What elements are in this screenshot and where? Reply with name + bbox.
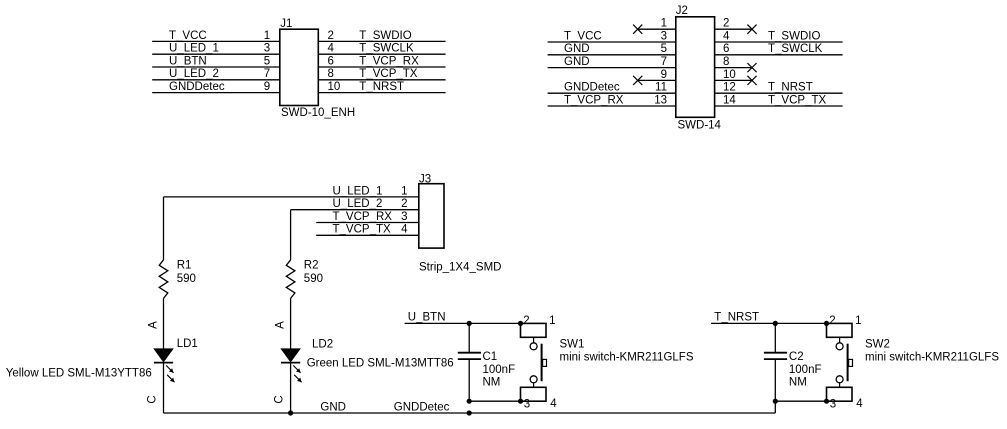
no-connect X at J2 pin 10 [747, 76, 756, 85]
junction SW1 pin 3 [518, 399, 523, 404]
connector J2 SWD-14 [676, 5, 722, 132]
svg-text:C: C [274, 395, 286, 403]
LED light arrows [166, 365, 173, 372]
svg-text:2: 2 [523, 315, 529, 327]
wire net GNDDetec to J2 pin 11 [548, 92, 676, 94]
svg-text:U_BTN: U_BTN [169, 55, 207, 67]
wire C1 bottom to SW1 pin 3 [469, 400, 520, 402]
svg-text:6: 6 [723, 43, 729, 55]
svg-text:10: 10 [723, 69, 736, 81]
svg-text:3: 3 [524, 399, 530, 411]
wire LD1 cathode to GND bus [163, 363, 165, 414]
svg-text:NM: NM [483, 376, 501, 388]
svg-text:T_SWCLK: T_SWCLK [359, 43, 414, 55]
svg-text:T_VCC: T_VCC [564, 30, 602, 42]
wire C2 bottom to SW2 pin 3 [775, 400, 826, 402]
capacitor C1 100nF NM [468, 323, 470, 352]
svg-text:9: 9 [264, 81, 270, 93]
svg-text:R2: R2 [304, 259, 319, 271]
svg-text:C: C [147, 395, 159, 403]
svg-text:T_VCP_RX: T_VCP_RX [564, 94, 624, 106]
svg-text:LD2: LD2 [312, 339, 333, 351]
resistor R2 590 [286, 260, 295, 299]
junction LD2 cathode on bus [288, 410, 293, 415]
svg-text:10: 10 [328, 81, 341, 93]
svg-text:13: 13 [654, 94, 667, 106]
wire net U_LED_1 to J3 pin 1 [164, 196, 419, 198]
junction SW2 pin 3 [824, 399, 829, 404]
wire U_LED_2 vertical to R2 [290, 210, 292, 260]
resistor R1 590 [159, 260, 168, 299]
svg-text:GND: GND [564, 56, 590, 68]
no-connect X at J2 pin 2 [747, 25, 756, 34]
svg-text:T_NRST: T_NRST [768, 82, 813, 94]
junction C1 bottom [467, 399, 472, 404]
junction C2 bottom [773, 399, 778, 404]
svg-text:8: 8 [723, 56, 729, 68]
svg-text:J2: J2 [676, 5, 688, 17]
wire net U_LED_2 to J1 pin 7 [152, 79, 280, 81]
svg-text:T_NRST: T_NRST [714, 312, 759, 324]
svg-text:T_NRST: T_NRST [359, 81, 404, 93]
svg-text:Yellow LED SML-M13YTT86: Yellow LED SML-M13YTT86 [6, 367, 152, 379]
svg-text:GNDDetec: GNDDetec [169, 81, 225, 93]
svg-text:6: 6 [328, 55, 334, 67]
svg-text:Strip_1X4_SMD: Strip_1X4_SMD [419, 262, 501, 274]
svg-text:GND: GND [320, 401, 346, 413]
wire R2 to LD2 [290, 298, 292, 349]
wire U_LED_1 vertical to R1 [163, 197, 165, 260]
svg-text:3: 3 [264, 43, 270, 55]
wire net U_BTN to J1 pin 5 [152, 66, 280, 68]
wire net GND to J2 pin 7 [548, 67, 676, 69]
wire net T_VCP_RX to J2 pin 13 [548, 105, 676, 107]
svg-text:100nF: 100nF [483, 364, 516, 376]
svg-text:2: 2 [401, 198, 407, 210]
switch SW2 mini switch-KMR211GLFS [827, 323, 853, 337]
svg-text:Green LED SML-M13MTT86: Green LED SML-M13MTT86 [307, 358, 454, 370]
svg-text:590: 590 [177, 273, 196, 285]
svg-text:SWD-10_ENH: SWD-10_ENH [281, 107, 355, 119]
connector J1 SWD-10_ENH [280, 18, 355, 119]
svg-text:U_LED_1: U_LED_1 [169, 43, 219, 55]
svg-text:1: 1 [661, 18, 667, 30]
J2 pin 9 no-connect wire [638, 79, 676, 81]
wire net GND to J2 pin 5 [548, 54, 676, 56]
svg-text:U_BTN: U_BTN [408, 312, 446, 324]
J2 pin 2 no-connect wire [715, 28, 752, 30]
svg-text:GND: GND [564, 43, 590, 55]
svg-text:A: A [275, 321, 287, 329]
svg-text:A: A [148, 321, 160, 329]
wire net U_LED_2 to J3 pin 2 [291, 209, 419, 211]
wire net T_VCP_TX from J1 pin 8 [318, 79, 445, 81]
no-connect X at J2 pin 1 [633, 25, 642, 34]
svg-text:NM: NM [789, 376, 807, 388]
svg-text:5: 5 [661, 43, 667, 55]
svg-text:T_VCP_TX: T_VCP_TX [359, 68, 417, 80]
svg-text:8: 8 [328, 68, 334, 80]
svg-text:2: 2 [723, 18, 729, 30]
capacitor C2 100nF NM [774, 323, 776, 352]
svg-text:T_SWCLK: T_SWCLK [768, 43, 823, 55]
J2 pin 10 no-connect wire [715, 79, 752, 81]
no-connect X at J2 pin 9 [633, 76, 642, 85]
svg-text:SWD-14: SWD-14 [678, 120, 722, 132]
wire top net to SW2 pin 2 [711, 322, 826, 324]
svg-text:4: 4 [550, 398, 557, 410]
wire R1 to LD1 [163, 298, 165, 349]
svg-text:T_VCP_RX: T_VCP_RX [333, 211, 393, 223]
svg-text:3: 3 [401, 211, 407, 223]
svg-text:T_VCP_TX: T_VCP_TX [333, 224, 391, 236]
svg-text:5: 5 [264, 55, 270, 67]
svg-text:9: 9 [661, 69, 667, 81]
wire GND bus [164, 412, 776, 414]
wire LD2 cathode to GND bus [290, 363, 292, 414]
junction C2 top [773, 321, 778, 326]
svg-text:14: 14 [723, 94, 736, 106]
svg-text:T_VCP_TX: T_VCP_TX [768, 94, 826, 106]
switch SW1 mini switch-KMR211GLFS [521, 323, 547, 337]
svg-text:U_LED_2: U_LED_2 [169, 68, 219, 80]
connector J3 Strip_1X4_SMD [419, 173, 502, 273]
wire net T_VCC to J1 pin 1 [152, 40, 280, 42]
svg-text:4: 4 [328, 43, 335, 55]
J2 pin 8 no-connect wire [715, 67, 752, 69]
svg-text:mini switch-KMR211GLFS: mini switch-KMR211GLFS [560, 352, 694, 364]
svg-text:1: 1 [549, 315, 555, 327]
svg-text:SW2: SW2 [865, 339, 890, 351]
wire top net to SW1 pin 2 [405, 322, 521, 324]
LED LD2 [281, 349, 300, 362]
svg-text:11: 11 [655, 82, 667, 94]
LED LD1 [154, 349, 173, 362]
svg-text:C2: C2 [789, 351, 804, 363]
svg-text:4: 4 [723, 30, 730, 42]
svg-text:GNDDetec: GNDDetec [564, 82, 620, 94]
svg-text:mini switch-KMR211GLFS: mini switch-KMR211GLFS [865, 352, 999, 364]
svg-text:1: 1 [401, 185, 407, 197]
svg-text:3: 3 [661, 30, 667, 42]
svg-text:1: 1 [855, 315, 861, 327]
wire net GNDDetec to J1 pin 9 [152, 92, 280, 94]
svg-text:T_VCP_RX: T_VCP_RX [359, 55, 419, 67]
J2 pin 1 no-connect wire [638, 28, 676, 30]
junction SW1 pin 2 [518, 321, 523, 326]
svg-text:100nF: 100nF [789, 364, 822, 376]
wire net T_NRST from J1 pin 10 [318, 92, 445, 94]
junction SW2 pin 2 [824, 321, 829, 326]
junction C1 at GND bus [467, 410, 472, 415]
svg-text:SW1: SW1 [560, 339, 585, 351]
svg-text:3: 3 [830, 399, 836, 411]
svg-text:U_LED_2: U_LED_2 [333, 198, 383, 210]
svg-text:2: 2 [328, 30, 334, 42]
wire net T_SWDIO from J1 pin 2 [318, 40, 445, 42]
wire net T_SWDIO from J2 pin 4 [715, 41, 843, 43]
wire net U_LED_1 to J1 pin 3 [152, 53, 280, 55]
svg-text:7: 7 [661, 56, 667, 68]
wire net T_VCP_RX to J3 pin 3 [316, 222, 419, 224]
svg-text:R1: R1 [177, 259, 192, 271]
svg-text:J3: J3 [419, 173, 431, 185]
wire net T_VCP_TX from J2 pin 14 [715, 105, 843, 107]
junction C1 top [467, 321, 472, 326]
svg-text:1: 1 [264, 30, 270, 42]
svg-text:LD1: LD1 [177, 338, 198, 350]
svg-text:J1: J1 [280, 18, 292, 30]
svg-text:T_SWDIO: T_SWDIO [768, 30, 820, 42]
svg-text:12: 12 [723, 82, 736, 94]
wire net T_VCC to J2 pin 3 [548, 41, 676, 43]
svg-text:T_VCC: T_VCC [169, 30, 207, 42]
wire net T_VCP_TX to J3 pin 4 [316, 234, 419, 236]
no-connect X at J2 pin 8 [747, 63, 756, 72]
svg-text:7: 7 [264, 68, 270, 80]
svg-text:T_SWDIO: T_SWDIO [359, 30, 411, 42]
svg-text:2: 2 [829, 315, 835, 327]
wire net T_VCP_RX from J1 pin 6 [318, 66, 445, 68]
wire net T_NRST from J2 pin 12 [715, 92, 843, 94]
svg-text:U_LED_1: U_LED_1 [333, 185, 383, 197]
svg-text:590: 590 [304, 273, 323, 285]
svg-text:C1: C1 [483, 351, 498, 363]
svg-text:GNDDetec: GNDDetec [394, 401, 450, 413]
svg-text:4: 4 [856, 398, 863, 410]
LED light arrows [293, 365, 300, 372]
wire net T_SWCLK from J2 pin 6 [715, 54, 843, 56]
wire net T_SWCLK from J1 pin 4 [318, 53, 445, 55]
svg-text:4: 4 [401, 224, 408, 236]
